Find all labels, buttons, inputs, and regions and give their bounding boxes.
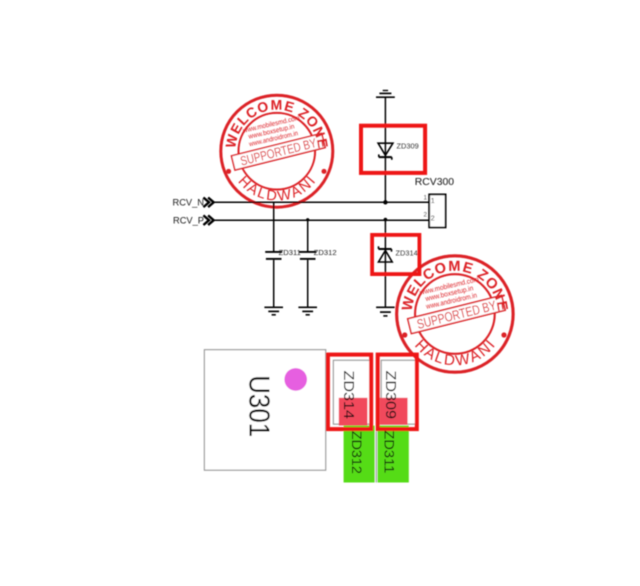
port RCV_P chevron (203, 215, 213, 225)
node junction RCV_P / ZD312 (306, 218, 309, 221)
svg-text:RCV300: RCV300 (415, 177, 454, 188)
svg-text:U301: U301 (243, 375, 275, 437)
svg-text:2: 2 (424, 211, 428, 218)
wire RCV_P horizontal (213, 219, 429, 221)
node junction RCV_P / ZD314 (384, 218, 388, 222)
ground (under ZD311) (264, 307, 283, 315)
node junction RCV_N / ZD309 (383, 200, 387, 204)
red annotation frame left (328, 355, 371, 430)
connector RCV300 body (429, 194, 445, 227)
green overlay box ZD312 (344, 426, 375, 483)
red highlight box ZD309 (361, 126, 425, 173)
wire ZD314 branch vertical (384, 220, 386, 307)
svg-text:ZD309: ZD309 (397, 142, 419, 151)
svg-text:2: 2 (431, 215, 435, 222)
svg-text:RCV_P: RCV_P (173, 216, 204, 226)
wire ZD311 branch vertical (273, 202, 275, 251)
svg-text:ZD309: ZD309 (382, 370, 398, 419)
svg-text:1: 1 (431, 198, 435, 205)
red highlight box ZD314 (372, 235, 419, 274)
svg-text:ZD311: ZD311 (279, 248, 301, 257)
white label box (ZD309) (381, 360, 416, 424)
capacitor ZD312 (299, 252, 316, 259)
magenta marker dot (284, 368, 307, 391)
pink overlay box right (380, 398, 408, 425)
port RCV_N chevron (203, 198, 213, 208)
capacitor ZD311 (265, 252, 282, 259)
wire ZD309 branch vertical (384, 97, 386, 202)
pink overlay box left (339, 398, 368, 426)
svg-text:ZD311: ZD311 (382, 430, 398, 473)
ground (under ZD314) (376, 307, 395, 316)
svg-text:ZD314: ZD314 (340, 370, 356, 419)
white label box (ZD314) (333, 360, 370, 424)
svg-text:RCV_N: RCV_N (173, 198, 205, 208)
ground (top, flipped) (376, 91, 395, 98)
red annotation frame right (378, 355, 417, 430)
svg-text:ZD312: ZD312 (349, 431, 365, 474)
svg-text:1: 1 (424, 195, 428, 202)
gray divider between green boxes (375, 431, 377, 482)
zener diode ZD309 (378, 143, 393, 160)
chip U301 box (204, 350, 325, 471)
zener diode ZD314 (379, 246, 393, 262)
wire RCV_N horizontal (213, 201, 429, 203)
svg-text:ZD312: ZD312 (314, 248, 337, 257)
svg-text:ZD314: ZD314 (396, 249, 418, 258)
green overlay box ZD311 (378, 426, 409, 483)
wire ZD312 branch vertical (307, 220, 309, 251)
stamp 2 (bottom right) (397, 256, 513, 372)
stamp 1 (top) (221, 95, 333, 207)
ground (under ZD312) (298, 307, 317, 315)
